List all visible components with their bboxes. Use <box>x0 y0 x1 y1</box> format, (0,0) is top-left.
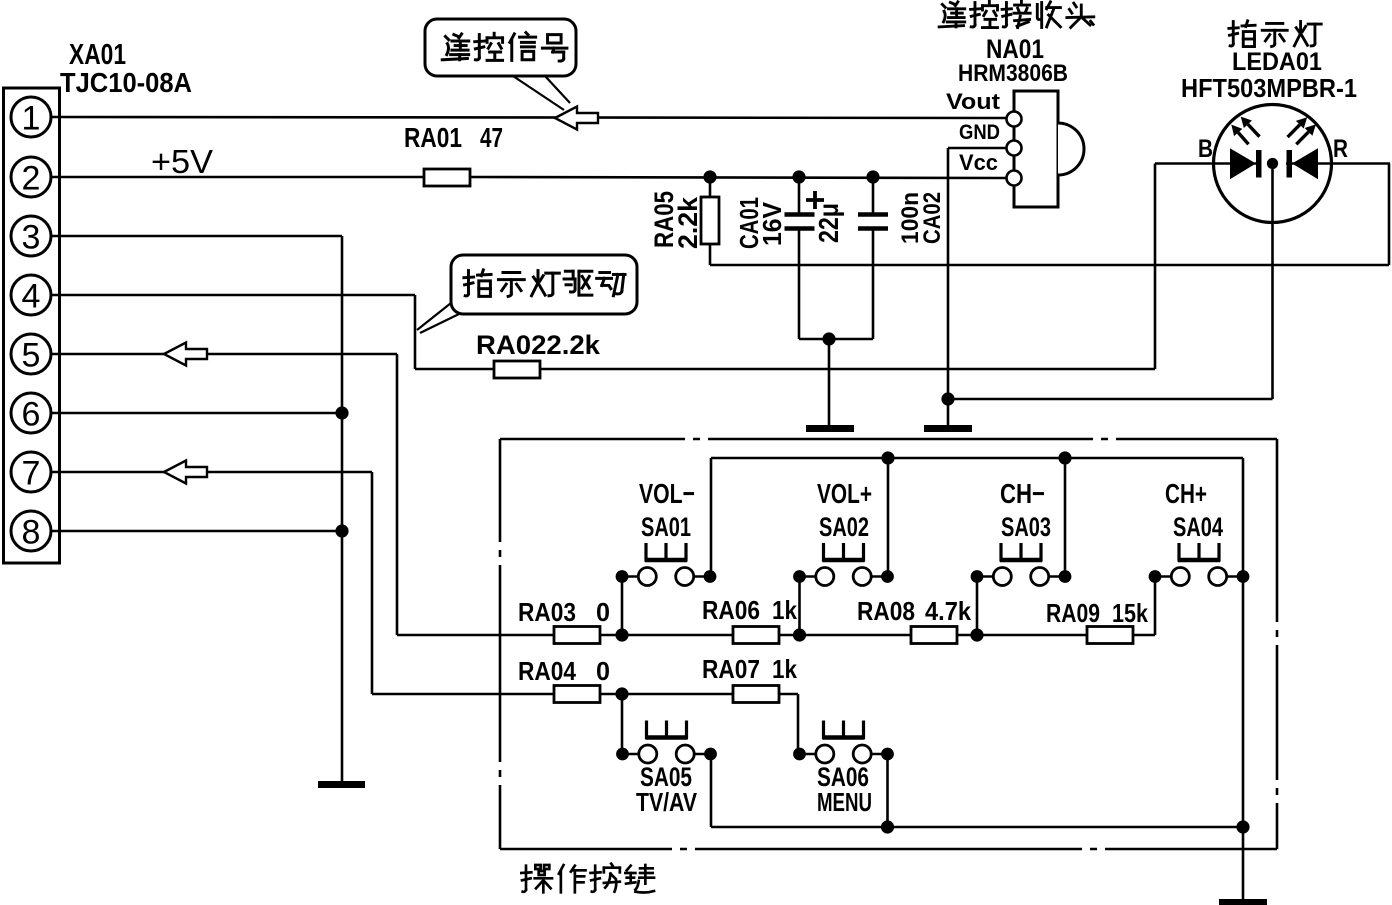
switch SA05 TV/AV <box>616 721 717 764</box>
svg-text:3: 3 <box>22 219 41 257</box>
callout box LED drive <box>451 255 637 314</box>
callout2 tail b <box>420 314 459 333</box>
svg-text:GND: GND <box>959 121 1000 144</box>
pin GND <box>1007 141 1022 156</box>
resistor RA02 <box>494 361 540 378</box>
callout tail b <box>545 76 570 103</box>
wire bottom bus <box>711 826 1243 829</box>
junction cap ground <box>822 332 835 345</box>
wire pin4 <box>51 294 415 297</box>
title: remote receiver head (yao kong jie shou tou) <box>939 1 1094 27</box>
connector XA01 TJC10-08A <box>4 88 60 563</box>
svg-text:RA07: RA07 <box>702 654 760 684</box>
title: indicator LED (zhi shi deng) <box>1229 21 1321 47</box>
wire GND down <box>947 148 950 426</box>
switch SA04 CH+ <box>1149 543 1250 586</box>
svg-text:+5V: +5V <box>151 143 213 180</box>
signal arrow remote in <box>555 107 598 130</box>
wire SA01 left riser <box>621 577 624 636</box>
CA01 bottom plate <box>785 226 815 231</box>
switch SA03 CH- <box>971 543 1072 586</box>
wire pin7 <box>51 471 372 474</box>
svg-text:VOL+: VOL+ <box>817 478 872 509</box>
wire pin5 <box>51 353 397 356</box>
ground (bottom right) <box>1219 899 1267 905</box>
junction SA01 <box>615 628 628 641</box>
junction GND/LED return <box>941 392 954 405</box>
junction SA03 <box>970 628 983 641</box>
svg-text:7: 7 <box>22 455 41 493</box>
wire pin4 down to RA02 <box>414 295 417 369</box>
operation keys dashed box <box>500 439 1277 849</box>
svg-text:TV/AV: TV/AV <box>636 787 698 817</box>
wire row1 d <box>1133 634 1155 637</box>
svg-text:HFT503MPBR-1: HFT503MPBR-1 <box>1181 73 1357 103</box>
svg-text:RA09: RA09 <box>1046 598 1100 628</box>
svg-text:RA03: RA03 <box>518 597 576 627</box>
resistor RA08 <box>911 627 957 644</box>
wire row1 a <box>600 634 733 637</box>
CA02 top plate <box>858 212 888 217</box>
wire RA05 bottom <box>709 244 712 265</box>
junction SA02 <box>793 628 806 641</box>
switch SA01 VOL- <box>616 543 717 586</box>
junction pin8 <box>335 524 348 537</box>
svg-text:0: 0 <box>596 656 610 686</box>
switch SA02 VOL+ <box>793 543 894 586</box>
svg-text:15k: 15k <box>1112 598 1148 628</box>
junction rail CA01 <box>792 170 805 183</box>
wire RA02 to LED B riser <box>540 368 1155 371</box>
wire pin7 down to row2 <box>371 472 374 694</box>
svg-text:LEDA01: LEDA01 <box>1232 48 1322 76</box>
wire GND <box>948 147 1007 150</box>
wire SA01 right riser <box>710 458 713 577</box>
wire CA02 bottom <box>872 230 875 339</box>
wire pin3 <box>51 235 342 238</box>
wire row2 a <box>600 693 733 696</box>
callout box remote signal <box>425 19 576 76</box>
wire right bus to ground <box>1242 577 1245 901</box>
ground (caps) <box>806 425 854 432</box>
wire SA04 right riser <box>1242 458 1245 577</box>
resistor RA01 <box>424 169 470 186</box>
svg-text:RA08: RA08 <box>857 596 915 626</box>
wire riser LED R <box>1388 164 1391 266</box>
svg-text:16V: 16V <box>757 201 787 246</box>
wire pin5 down to row1 <box>396 354 399 635</box>
svg-text:RA06: RA06 <box>702 595 760 625</box>
pin Vcc <box>1007 171 1022 186</box>
ground (left) <box>318 781 365 788</box>
svg-text:5: 5 <box>22 337 41 375</box>
switch SA06 MENU <box>793 721 894 764</box>
pin Vout <box>1007 112 1022 127</box>
svg-text:HRM3806B: HRM3806B <box>958 60 1068 87</box>
svg-text:1k: 1k <box>772 654 797 684</box>
svg-text:2.2k: 2.2k <box>673 196 703 249</box>
svg-text:CH+: CH+ <box>1165 478 1207 509</box>
signal arrow pin5 <box>164 343 207 366</box>
svg-text:RA01: RA01 <box>404 122 462 153</box>
svg-text:R: R <box>1333 135 1348 163</box>
resistor RA04 <box>554 686 600 703</box>
resistor RA07 <box>733 686 779 703</box>
callout text: indicator LED drive (zhi shi deng qu dong) <box>464 270 625 296</box>
svg-text:47: 47 <box>480 122 503 153</box>
junction top bus SA02 <box>881 451 894 464</box>
svg-text:1k: 1k <box>772 595 797 625</box>
wire SA05 left riser <box>621 694 624 754</box>
CA01 top plate <box>785 212 815 217</box>
svg-text:SA04: SA04 <box>1173 512 1223 542</box>
ground (receiver) <box>924 425 972 432</box>
LED common node <box>1267 158 1278 169</box>
svg-text:SA01: SA01 <box>641 512 691 542</box>
wire row2 in <box>372 693 554 696</box>
wire SA03 right riser <box>1064 458 1067 577</box>
svg-text:CA02: CA02 <box>919 192 946 244</box>
CA02 bottom plate <box>858 226 888 231</box>
LED emission arrows <box>1231 117 1316 145</box>
svg-text:4: 4 <box>22 278 41 316</box>
junction rail RA05 <box>703 170 716 183</box>
svg-text:1: 1 <box>22 100 41 138</box>
junction SA05 <box>615 687 628 700</box>
svg-text:SA02: SA02 <box>819 512 869 542</box>
wire riser to LED B <box>1154 164 1157 370</box>
resistor RA03 <box>554 627 600 644</box>
callout tail a <box>513 76 564 110</box>
wire row1 b <box>779 634 911 637</box>
svg-text:2: 2 <box>22 160 41 198</box>
LED diode R <box>1294 150 1317 178</box>
svg-text:Vcc: Vcc <box>959 150 998 175</box>
wire row2 b <box>779 693 798 696</box>
CA01 plus sign <box>806 198 824 202</box>
wire B inside <box>1155 162 1259 165</box>
wire top bus <box>711 457 1243 460</box>
capacitor CA01 (electrolytic) <box>798 177 801 213</box>
junction bottom bus SA06 <box>881 820 894 833</box>
label: operation keys (cao zuo an jian) <box>521 864 654 893</box>
wire pin4 to RA02 <box>415 368 494 371</box>
svg-text:RA022.2k: RA022.2k <box>476 330 601 360</box>
wire RA05 to LED R <box>710 264 1389 267</box>
receiver lens <box>1058 123 1084 175</box>
wire SA03 left riser <box>976 577 979 636</box>
wire pin2 +5V <box>51 176 424 179</box>
svg-text:MENU: MENU <box>817 787 872 817</box>
wire row1 in <box>397 634 554 637</box>
wire SA02 left riser <box>798 577 801 636</box>
wire SA06 right riser <box>886 754 889 827</box>
resistor RA06 <box>733 627 779 644</box>
svg-text:8: 8 <box>22 514 41 552</box>
resistor RA09 <box>1087 627 1133 644</box>
svg-text:CH−: CH− <box>1000 478 1045 509</box>
LED LEDA01 body circle <box>1214 105 1332 223</box>
resistor RA05 (vertical) <box>709 177 712 200</box>
wire +5V rail to Vcc <box>470 177 1007 178</box>
svg-text:0: 0 <box>596 597 610 627</box>
LED diode B <box>1231 150 1254 178</box>
svg-text:B: B <box>1198 135 1213 163</box>
wire to ground <box>828 339 831 426</box>
wire pin1 to Vout <box>51 117 1007 118</box>
junction top bus SA03 <box>1058 451 1071 464</box>
svg-text:RA04: RA04 <box>518 656 576 686</box>
receiver NA01 body <box>1014 91 1058 207</box>
callout2 tail a <box>417 303 451 330</box>
wire R inside <box>1286 162 1390 165</box>
wire LED common to GND <box>948 398 1273 401</box>
wire cap commons <box>799 338 873 341</box>
callout text: remote control signal (yao kong xin hao) <box>442 33 567 61</box>
svg-text:4.7k: 4.7k <box>925 596 971 626</box>
svg-text:VOL−: VOL− <box>639 478 695 509</box>
svg-text:6: 6 <box>22 396 41 434</box>
junction rail CA02 <box>866 170 879 183</box>
wire SA05 right riser <box>710 754 713 827</box>
wire SA06 left riser <box>797 694 800 754</box>
svg-text:Vout: Vout <box>946 89 1001 114</box>
wire SA04 left riser <box>1154 577 1157 636</box>
wire SA02 right riser <box>887 458 890 577</box>
wire pin8 <box>51 530 342 533</box>
junction bottom bus right <box>1236 820 1249 833</box>
signal arrow pin7 <box>164 461 207 484</box>
wire LED common down <box>1271 169 1274 399</box>
svg-text:22μ: 22μ <box>813 203 844 243</box>
wire row1 c <box>957 634 1087 637</box>
wire CA01 bottom <box>798 230 801 339</box>
junction pin6 <box>335 406 348 419</box>
svg-text:TJC10-08A: TJC10-08A <box>60 67 192 98</box>
wire pin3 vertical to ground <box>341 236 344 783</box>
svg-text:SA03: SA03 <box>1001 512 1051 542</box>
wire pin6 <box>51 412 342 415</box>
capacitor CA02 <box>872 177 875 213</box>
